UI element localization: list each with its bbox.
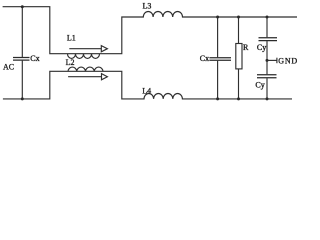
svg-text:Cy: Cy [255, 81, 264, 90]
svg-text:AC: AC [3, 63, 14, 72]
svg-text:L2: L2 [66, 58, 75, 67]
svg-text:Cx: Cx [30, 54, 39, 63]
svg-text:Cy: Cy [257, 43, 266, 52]
svg-text:R: R [243, 43, 249, 52]
svg-text:GND: GND [278, 57, 298, 66]
svg-text:L1: L1 [67, 34, 76, 43]
svg-text:L4: L4 [142, 86, 151, 95]
svg-text:Cx: Cx [200, 54, 209, 63]
svg-text:L3: L3 [143, 1, 152, 10]
